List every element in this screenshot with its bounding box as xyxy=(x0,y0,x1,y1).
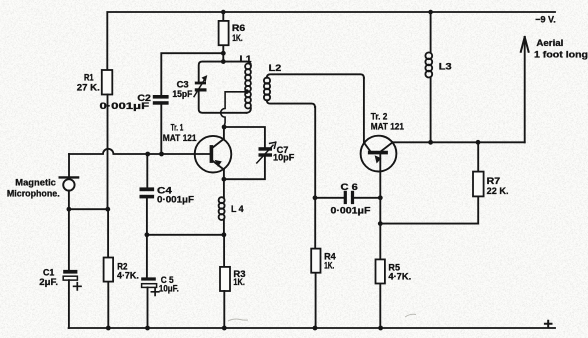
wire R3 to bottom rail xyxy=(223,291,225,328)
svg-text:R6: R6 xyxy=(232,23,245,33)
node C5 bottom xyxy=(145,326,150,331)
node emitter R7 return xyxy=(378,221,383,226)
resistor R1 xyxy=(102,70,113,95)
wire bottom rail xyxy=(69,327,555,329)
capacitor C5 xyxy=(141,277,159,295)
pencil smudge right xyxy=(405,314,416,317)
pencil smudge left xyxy=(228,319,248,321)
wire R2 line xyxy=(107,209,109,328)
svg-text:27 K.: 27 K. xyxy=(77,82,100,92)
node C6 left xyxy=(313,195,318,200)
wire Tr.2 emitter chain xyxy=(379,172,381,329)
capacitor C2 xyxy=(153,95,169,105)
svg-text:L3: L3 xyxy=(439,62,452,72)
svg-text:−9 V.: −9 V. xyxy=(535,15,556,25)
wire mic branch to R2 line xyxy=(69,208,108,210)
svg-text:Aerial: Aerial xyxy=(536,38,563,48)
wire L2 secondary down to R4 xyxy=(314,107,316,328)
svg-text:R1: R1 xyxy=(84,73,94,83)
wire R7 leads and return to emitter xyxy=(380,142,478,223)
resistor R2 xyxy=(104,258,114,282)
inductor L4 xyxy=(219,179,225,235)
inductor L3 xyxy=(425,12,432,142)
resistor R6 xyxy=(219,21,229,45)
svg-text:R7: R7 xyxy=(487,176,501,186)
svg-text:4·7K.: 4·7K. xyxy=(388,271,411,281)
svg-text:C 6: C 6 xyxy=(341,182,358,192)
node top rail R6 xyxy=(221,10,226,15)
resistor R4 xyxy=(311,249,320,273)
svg-text:1K.: 1K. xyxy=(233,277,245,287)
svg-text:22 K.: 22 K. xyxy=(487,186,509,196)
wire R1 bottom to mic branch xyxy=(107,95,109,210)
svg-text:1K.: 1K. xyxy=(232,33,243,43)
svg-text:0·001μF: 0·001μF xyxy=(157,195,195,205)
wire collector to C7 branch xyxy=(224,127,265,147)
svg-text:MAT 121: MAT 121 xyxy=(371,122,404,132)
wire R6 leads xyxy=(222,12,224,62)
svg-text:10pF: 10pF xyxy=(273,152,295,162)
wire C5 to bottom rail xyxy=(147,287,149,328)
node mic branch right xyxy=(105,207,110,212)
transistor Tr.1 MAT 121 xyxy=(195,127,232,179)
svg-text:MAT 121: MAT 121 xyxy=(163,133,197,143)
svg-text:C3: C3 xyxy=(177,80,189,90)
svg-text:L 4: L 4 xyxy=(231,204,244,214)
plus terminal bottom right xyxy=(544,320,553,328)
wire base to C4 xyxy=(146,154,148,187)
resistor R5 xyxy=(376,259,385,283)
wire C4 to C5 with branch to L4 xyxy=(147,198,224,277)
transistor Tr.2 MAT 121 xyxy=(361,136,397,172)
wire Tr.2 collector rail xyxy=(393,141,525,143)
wire base rail left drop to microphone xyxy=(68,154,70,177)
svg-text:Tr. 1: Tr. 1 xyxy=(171,122,184,132)
node R3 bottom xyxy=(222,326,227,331)
capacitor C1 xyxy=(63,270,81,290)
node R6-C2 xyxy=(221,51,226,56)
node R4 bottom xyxy=(313,326,318,331)
svg-text:0·001μF: 0·001μF xyxy=(100,101,150,111)
svg-text:10μF.: 10μF. xyxy=(159,283,179,293)
node top rail L3 xyxy=(428,10,433,15)
wire top supply rail xyxy=(107,12,555,70)
svg-text:2μF.: 2μF. xyxy=(39,277,58,287)
aerial antenna xyxy=(521,37,529,142)
svg-text:C1: C1 xyxy=(43,268,54,278)
node L1 tap xyxy=(244,89,249,94)
node mic branch left xyxy=(67,207,72,212)
svg-text:Magnetic: Magnetic xyxy=(15,178,56,188)
capacitor C4 xyxy=(140,187,155,198)
node collector rail R7 xyxy=(476,140,481,145)
resistor R3 xyxy=(220,267,230,291)
node C4-L4 branch xyxy=(145,232,150,237)
node base C4 junction xyxy=(145,152,150,157)
wire C7 bottom to emitter xyxy=(224,157,265,180)
node collector junction xyxy=(222,125,227,130)
node collector rail L3 xyxy=(428,140,433,145)
svg-text:0·001μF: 0·001μF xyxy=(331,206,372,216)
svg-text:4·7K.: 4·7K. xyxy=(117,270,139,280)
wire base rail with crossover hump xyxy=(69,149,195,154)
wire C2 to base rail xyxy=(160,105,162,154)
resistor R7 xyxy=(473,172,484,197)
wire L4 to R3 xyxy=(223,235,225,267)
inductor L2 xyxy=(264,74,364,107)
node L4 bottom branch xyxy=(222,232,227,237)
svg-text:1 foot long: 1 foot long xyxy=(534,49,588,59)
node R5 bottom xyxy=(378,326,383,331)
capacitor C6 xyxy=(315,191,380,204)
capacitor C3 (variable) xyxy=(194,75,207,97)
wire L2 top to Tr.2 base xyxy=(364,78,370,151)
microphone MIC1 xyxy=(60,177,78,190)
svg-text:1K.: 1K. xyxy=(324,261,334,271)
node R2 bottom xyxy=(106,326,111,331)
node tank top xyxy=(221,59,226,64)
wire mic to C1 xyxy=(68,191,70,270)
node base C2 junction xyxy=(159,152,164,157)
wire C2 up to R6 node xyxy=(161,53,223,95)
wire L1 tap to collector node with jump over tank bottom xyxy=(221,92,247,127)
node emitter junction xyxy=(222,177,227,182)
svg-text:Microphone.: Microphone. xyxy=(7,188,60,198)
tank circuit outline (L1 + C3 loop) xyxy=(199,62,247,113)
svg-text:L2: L2 xyxy=(269,63,282,73)
svg-text:L1: L1 xyxy=(240,54,252,64)
capacitor C7 (variable) xyxy=(257,142,276,163)
svg-text:15pF: 15pF xyxy=(172,89,192,99)
wire C1 to bottom rail xyxy=(68,280,70,328)
inductor L1 (tapped coil) xyxy=(245,62,251,113)
svg-text:Tr. 2: Tr. 2 xyxy=(371,112,388,122)
node emitter C6 xyxy=(378,195,383,200)
